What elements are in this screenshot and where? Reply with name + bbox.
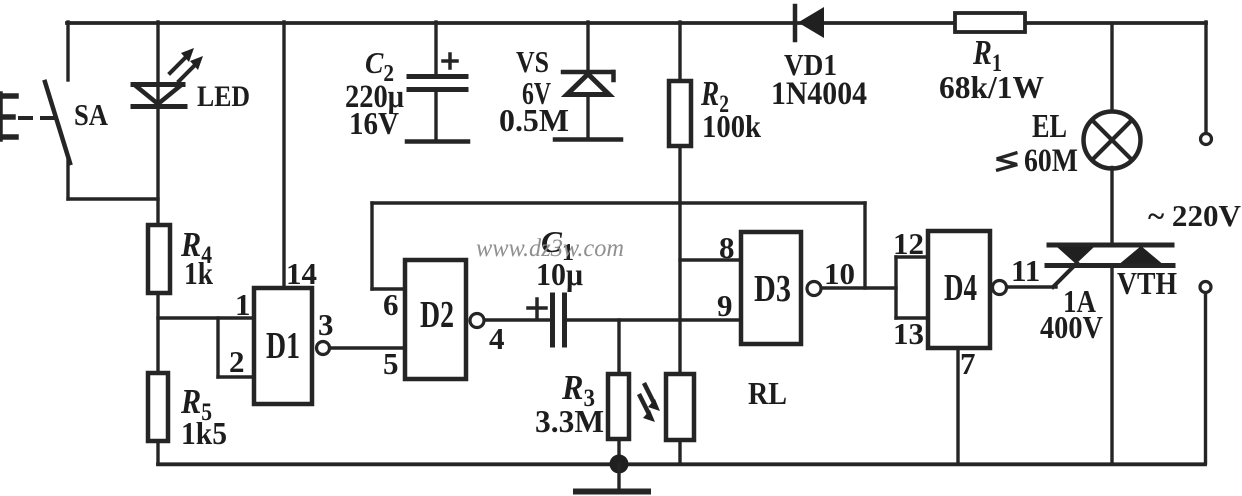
resistor R2 — [669, 81, 691, 146]
svg-text:8: 8 — [719, 230, 735, 265]
svg-text:1: 1 — [235, 287, 251, 322]
bubble pin11 — [993, 281, 1007, 295]
wire pin6 — [372, 287, 405, 290]
wire R3 to rail — [617, 439, 620, 463]
lamp EL — [1084, 112, 1141, 169]
wire R5 to bottom rail — [156, 441, 159, 463]
capacitor C1 — [553, 295, 565, 345]
resistor R5 — [148, 373, 168, 441]
svg-text:7: 7 — [960, 346, 976, 381]
svg-text:11: 11 — [1011, 253, 1040, 288]
svg-text:D4: D4 — [944, 267, 977, 309]
wire pin10 to D4 — [822, 286, 897, 289]
wire right terminal top — [1204, 22, 1207, 133]
wire pin7 — [956, 348, 959, 463]
diode VD1 — [795, 6, 824, 40]
wire triac to rail — [1110, 265, 1113, 463]
capacitor C2 — [407, 22, 468, 142]
wire C1 to D3 pin9 — [567, 318, 741, 321]
wire pin3 to pin5 — [330, 346, 405, 349]
svg-text:16V: 16V — [349, 105, 399, 141]
terminal circle top — [1201, 134, 1212, 145]
IC D2 — [405, 260, 466, 379]
wire pin11 to gate — [1007, 285, 1056, 288]
svg-text:EL: EL — [1032, 108, 1067, 145]
wire lamp down to triac — [1110, 168, 1113, 246]
wire main vertical upper — [678, 22, 681, 81]
switch SA — [45, 22, 70, 199]
svg-text:www.dz3w.com: www.dz3w.com — [476, 235, 624, 262]
wire pin8 — [680, 258, 741, 261]
LED — [133, 48, 203, 107]
svg-text:13: 13 — [893, 316, 924, 351]
bubble pin10 — [807, 282, 821, 296]
IC D3 — [741, 232, 801, 344]
wire top rail — [67, 21, 1206, 25]
svg-text:1N4004: 1N4004 — [771, 76, 867, 112]
feedback wire — [372, 203, 865, 289]
wire pin4 to C1 — [485, 318, 551, 321]
triac VTH — [1047, 245, 1173, 287]
svg-text:RL: RL — [748, 375, 787, 411]
svg-text:1k5: 1k5 — [181, 415, 227, 451]
svg-text:60M: 60M — [1024, 143, 1078, 179]
light arrows RL — [640, 385, 660, 422]
wire LED branch — [156, 22, 159, 225]
plus sign C2 — [443, 54, 457, 68]
wire RL to rail — [678, 440, 681, 463]
dashed actuator line — [20, 116, 55, 120]
svg-text:3: 3 — [318, 307, 334, 342]
svg-text:4: 4 — [489, 321, 505, 356]
svg-text:10: 10 — [824, 256, 855, 291]
wire R4 to R5 — [156, 293, 159, 373]
wire main vertical middle — [678, 146, 681, 374]
svg-text:D1: D1 — [266, 325, 300, 367]
svg-text:100k: 100k — [702, 108, 761, 144]
wire pin2 loop — [218, 318, 255, 377]
photoresistor RL — [666, 374, 694, 440]
terminal circle bottom — [1200, 282, 1211, 293]
svg-text:0.5M: 0.5M — [499, 102, 569, 138]
IC D4 — [928, 231, 990, 348]
label E (cut at edge) — [0, 94, 16, 139]
svg-text:6: 6 — [383, 287, 399, 322]
bubble pin3 — [317, 342, 330, 355]
resistor R3 — [608, 374, 629, 439]
svg-text:SA: SA — [74, 97, 109, 132]
svg-text:2: 2 — [229, 344, 245, 379]
plus sign C1 — [528, 299, 546, 317]
wire node to D1 pin1 — [158, 316, 255, 319]
svg-text:LED: LED — [197, 80, 250, 113]
wire pin14 — [282, 22, 285, 288]
svg-text:14: 14 — [286, 256, 317, 291]
svg-text:400V: 400V — [1040, 309, 1103, 345]
svg-text:D3: D3 — [754, 268, 791, 310]
wire lamp to triac — [1110, 24, 1113, 112]
wire bottom rail — [158, 462, 1205, 466]
wire switch return — [68, 197, 158, 200]
svg-text:1k: 1k — [184, 255, 213, 291]
zener VS — [555, 22, 621, 140]
wire right terminal bottom — [1204, 293, 1207, 463]
leq sign — [996, 153, 1018, 171]
svg-text:~ 220V: ~ 220V — [1148, 198, 1242, 233]
svg-text:VS: VS — [516, 44, 549, 79]
wire pin12-13 loop — [896, 257, 928, 318]
bubble pin4 — [470, 314, 484, 328]
svg-text:VTH: VTH — [1117, 265, 1177, 301]
svg-text:12: 12 — [893, 226, 924, 261]
svg-text:9: 9 — [717, 288, 733, 323]
junction node — [610, 455, 629, 474]
ground — [576, 464, 648, 492]
resistor R1 — [955, 13, 1025, 32]
resistor R4 — [148, 225, 170, 293]
svg-text:D2: D2 — [420, 294, 454, 336]
wire R3 drop — [617, 320, 620, 374]
svg-text:3.3M: 3.3M — [535, 403, 604, 439]
IC D1 — [254, 288, 312, 404]
svg-text:5: 5 — [383, 346, 399, 381]
svg-text:68k/1W: 68k/1W — [939, 69, 1044, 105]
